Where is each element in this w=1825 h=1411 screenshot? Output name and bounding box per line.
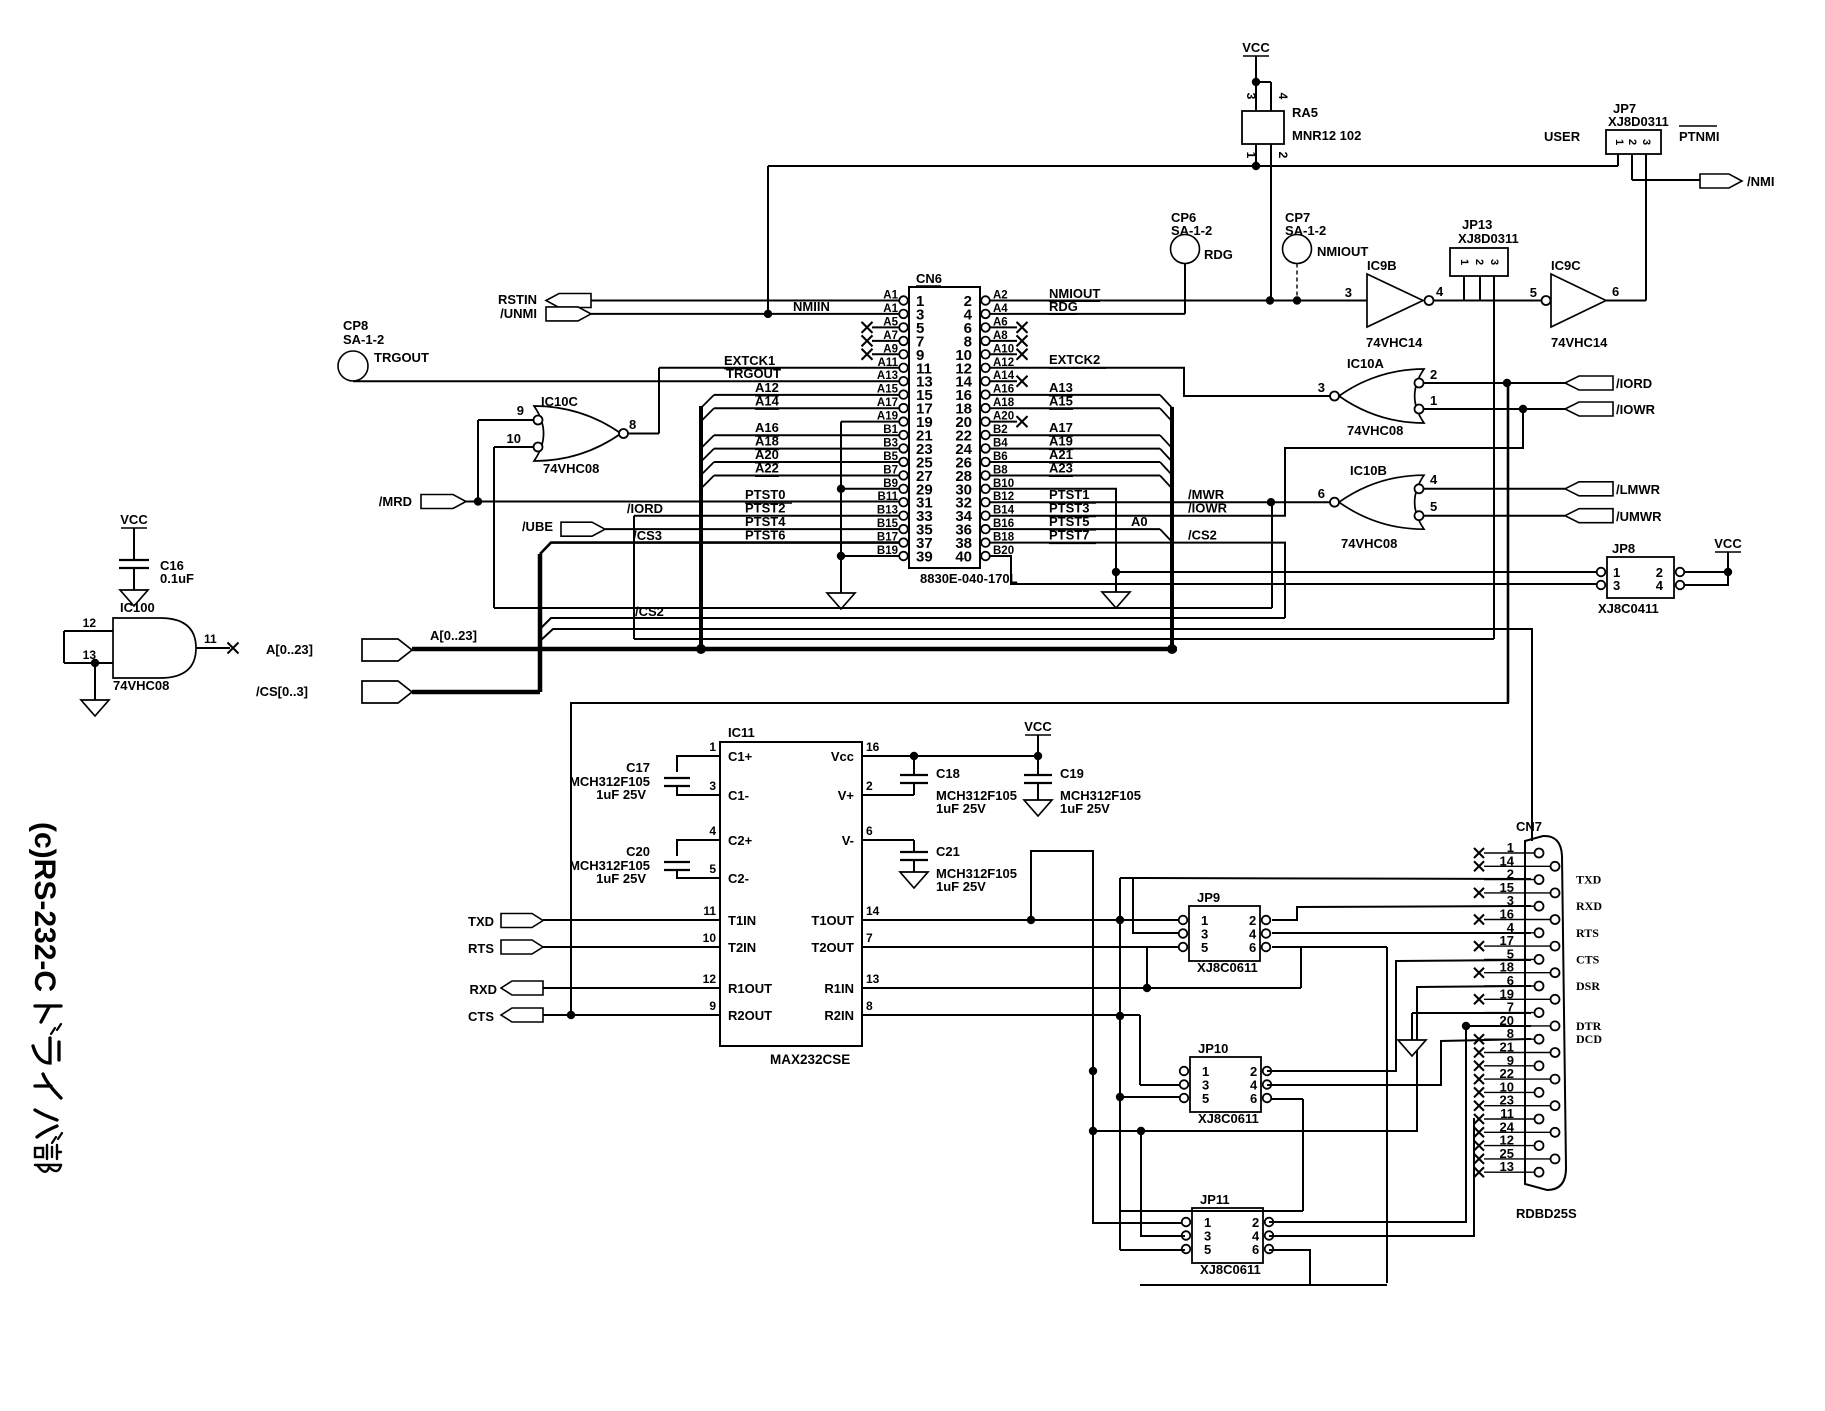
svg-text:1uF 25V: 1uF 25V — [596, 871, 646, 886]
svg-text:3: 3 — [1345, 285, 1352, 300]
svg-text:RDG: RDG — [1049, 299, 1078, 314]
svg-text:PTST7: PTST7 — [1049, 528, 1089, 543]
svg-text:2: 2 — [1430, 367, 1437, 382]
svg-text:/CS2: /CS2 — [1188, 528, 1217, 543]
svg-text:7: 7 — [866, 931, 873, 945]
svg-text:/UMWR: /UMWR — [1616, 509, 1662, 524]
svg-text:1uF 25V: 1uF 25V — [1060, 801, 1110, 816]
svg-text:5: 5 — [1201, 940, 1208, 955]
svg-text:SA-1-2: SA-1-2 — [343, 332, 384, 347]
svg-text:JP10: JP10 — [1198, 1041, 1228, 1056]
svg-text:A22: A22 — [755, 461, 779, 476]
svg-text:NMIOUT: NMIOUT — [1317, 244, 1368, 259]
svg-text:IC10C: IC10C — [541, 394, 578, 409]
svg-text:/NMI: /NMI — [1747, 174, 1774, 189]
svg-text:CN7: CN7 — [1516, 819, 1542, 834]
svg-text:DTR: DTR — [1576, 1019, 1602, 1033]
svg-text:T1OUT: T1OUT — [811, 913, 854, 928]
svg-text:RXD: RXD — [470, 982, 497, 997]
svg-text:2: 2 — [1473, 259, 1485, 265]
svg-text:C2+: C2+ — [728, 833, 753, 848]
svg-text:/IORD: /IORD — [1616, 376, 1652, 391]
svg-text:T1IN: T1IN — [728, 913, 756, 928]
svg-text:C20: C20 — [626, 844, 650, 859]
svg-text:4: 4 — [1276, 93, 1290, 100]
svg-text:XJ8C0611: XJ8C0611 — [1197, 960, 1258, 975]
svg-text:6: 6 — [1318, 486, 1325, 501]
svg-text:A16: A16 — [993, 384, 1014, 396]
svg-text:5: 5 — [1204, 1242, 1211, 1257]
svg-text:5: 5 — [1430, 499, 1437, 514]
svg-text:IC9C: IC9C — [1551, 258, 1581, 273]
svg-text:74VHC08: 74VHC08 — [1347, 423, 1403, 438]
svg-text:IC100: IC100 — [120, 600, 155, 615]
svg-text:10: 10 — [507, 431, 521, 446]
svg-text:CP8: CP8 — [343, 318, 368, 333]
svg-text:74VHC08: 74VHC08 — [1341, 536, 1397, 551]
svg-text:V-: V- — [842, 833, 854, 848]
svg-text:RDBD25S: RDBD25S — [1516, 1206, 1577, 1221]
svg-text:TXD: TXD — [468, 914, 494, 929]
svg-text:11: 11 — [703, 904, 716, 918]
svg-text:A14: A14 — [755, 393, 780, 408]
svg-text:IC10A: IC10A — [1347, 356, 1384, 371]
svg-text:VCC: VCC — [1242, 40, 1270, 55]
svg-text:39: 39 — [916, 549, 933, 566]
svg-text:9: 9 — [517, 403, 524, 418]
svg-text:8: 8 — [629, 417, 636, 432]
svg-text:2: 2 — [866, 779, 873, 793]
svg-text:DSR: DSR — [1576, 979, 1600, 993]
svg-text:A15: A15 — [877, 384, 899, 396]
svg-text:2: 2 — [1626, 139, 1638, 145]
svg-text:T2OUT: T2OUT — [811, 940, 854, 955]
svg-text:IC11: IC11 — [728, 725, 755, 740]
svg-text:T2IN: T2IN — [728, 940, 756, 955]
svg-text:TXD: TXD — [1576, 873, 1602, 887]
svg-text:40: 40 — [955, 549, 972, 566]
svg-text:6: 6 — [1250, 1091, 1257, 1106]
svg-text:SA-1-2: SA-1-2 — [1285, 223, 1326, 238]
svg-text:JP9: JP9 — [1197, 890, 1220, 905]
svg-text:/CS2: /CS2 — [635, 604, 664, 619]
svg-text:/UNMI: /UNMI — [500, 306, 537, 321]
svg-text:/CS[0..3]: /CS[0..3] — [256, 684, 308, 699]
svg-text:6: 6 — [1249, 940, 1256, 955]
svg-text:C18: C18 — [936, 766, 960, 781]
svg-text:4: 4 — [1430, 472, 1438, 487]
svg-text:3: 3 — [1613, 578, 1620, 593]
svg-text:RSTIN: RSTIN — [498, 292, 537, 307]
svg-text:11: 11 — [204, 632, 217, 646]
svg-text:XJ8D0311: XJ8D0311 — [1458, 231, 1519, 246]
svg-text:VCC: VCC — [120, 512, 148, 527]
svg-text:1uF 25V: 1uF 25V — [596, 787, 646, 802]
svg-text:Vcc: Vcc — [831, 749, 854, 764]
svg-text:C2-: C2- — [728, 871, 749, 886]
svg-text:(c)RS-232-C: (c)RS-232-C — [28, 822, 61, 992]
svg-text:RTS: RTS — [468, 941, 494, 956]
svg-text:C17: C17 — [626, 760, 650, 775]
svg-text:5: 5 — [1202, 1091, 1209, 1106]
svg-text:PTST6: PTST6 — [745, 528, 785, 543]
svg-text:DCD: DCD — [1576, 1032, 1602, 1046]
svg-text:R1OUT: R1OUT — [728, 981, 772, 996]
svg-text:/CS3: /CS3 — [633, 528, 662, 543]
svg-text:XJ8C0611: XJ8C0611 — [1198, 1111, 1259, 1126]
svg-text:8830E-040-170L: 8830E-040-170L — [920, 571, 1018, 586]
svg-text:IC9B: IC9B — [1367, 258, 1397, 273]
svg-text:4: 4 — [1656, 578, 1664, 593]
svg-text:3: 3 — [1318, 380, 1325, 395]
svg-text:1: 1 — [1613, 139, 1625, 145]
svg-text:CN6: CN6 — [916, 271, 942, 286]
svg-text:3: 3 — [1488, 259, 1500, 265]
svg-text:4: 4 — [1436, 284, 1444, 299]
svg-text:0.1uF: 0.1uF — [160, 571, 194, 586]
svg-text:C1-: C1- — [728, 788, 749, 803]
svg-text:74VHC14: 74VHC14 — [1366, 335, 1423, 350]
svg-text:JP8: JP8 — [1612, 541, 1635, 556]
svg-text:6: 6 — [866, 824, 873, 838]
svg-text:1: 1 — [709, 740, 716, 754]
svg-text:RA5: RA5 — [1292, 105, 1318, 120]
svg-text:MNR12 102: MNR12 102 — [1292, 128, 1361, 143]
svg-text:1: 1 — [1458, 259, 1470, 265]
svg-text:VCC: VCC — [1024, 719, 1052, 734]
svg-text:VCC: VCC — [1714, 536, 1742, 551]
svg-text:8: 8 — [866, 999, 873, 1013]
svg-text:74VHC08: 74VHC08 — [543, 461, 599, 476]
svg-text:PTNMI: PTNMI — [1679, 129, 1719, 144]
svg-text:JP13: JP13 — [1462, 217, 1492, 232]
svg-text:6: 6 — [1252, 1242, 1259, 1257]
svg-text:12: 12 — [83, 616, 97, 630]
svg-text:TRGOUT: TRGOUT — [374, 350, 429, 365]
svg-text:MAX232CSE: MAX232CSE — [770, 1052, 850, 1067]
svg-text:CTS: CTS — [1576, 952, 1600, 966]
svg-text:5: 5 — [709, 862, 716, 876]
svg-text:2: 2 — [1276, 152, 1290, 159]
svg-text:XJ8D0311: XJ8D0311 — [1608, 114, 1669, 129]
svg-text:5: 5 — [1530, 285, 1537, 300]
svg-text:1: 1 — [1430, 393, 1437, 408]
svg-text:13: 13 — [866, 972, 880, 986]
svg-text:4: 4 — [709, 824, 716, 838]
svg-text:XJ8C0611: XJ8C0611 — [1200, 1262, 1261, 1277]
svg-text:1uF 25V: 1uF 25V — [936, 879, 986, 894]
svg-text:10: 10 — [703, 931, 717, 945]
svg-text:C21: C21 — [936, 844, 960, 859]
svg-text:3: 3 — [1244, 93, 1258, 100]
svg-text:/MRD: /MRD — [379, 494, 412, 509]
svg-text:NMIIN: NMIIN — [793, 299, 830, 314]
svg-text:74VHC08: 74VHC08 — [113, 678, 169, 693]
svg-text:1uF 25V: 1uF 25V — [936, 801, 986, 816]
svg-text:RXD: RXD — [1576, 899, 1602, 913]
svg-text:A0: A0 — [1131, 514, 1148, 529]
svg-text:A[0..23]: A[0..23] — [266, 642, 313, 657]
svg-text:6: 6 — [1612, 284, 1619, 299]
svg-text:XJ8C0411: XJ8C0411 — [1598, 601, 1659, 616]
svg-text:12: 12 — [703, 972, 717, 986]
svg-text:IC10B: IC10B — [1350, 463, 1387, 478]
svg-text:V+: V+ — [838, 788, 855, 803]
svg-text:R2IN: R2IN — [824, 1008, 854, 1023]
svg-text:EXTCK2: EXTCK2 — [1049, 352, 1100, 367]
svg-text:3: 3 — [1640, 139, 1652, 145]
svg-text:RTS: RTS — [1576, 926, 1599, 940]
svg-text:A[0..23]: A[0..23] — [430, 628, 477, 643]
svg-text:C19: C19 — [1060, 766, 1084, 781]
svg-text:CTS: CTS — [468, 1009, 494, 1024]
svg-text:R1IN: R1IN — [824, 981, 854, 996]
svg-text:/IOWR: /IOWR — [1616, 402, 1656, 417]
svg-text:/LMWR: /LMWR — [1616, 482, 1661, 497]
svg-text:14: 14 — [866, 904, 880, 918]
svg-text:3: 3 — [709, 779, 716, 793]
svg-text:R2OUT: R2OUT — [728, 1008, 772, 1023]
svg-text:74VHC14: 74VHC14 — [1551, 335, 1608, 350]
svg-text:/IOWR: /IOWR — [1188, 501, 1228, 516]
svg-text:USER: USER — [1544, 129, 1581, 144]
svg-text:A23: A23 — [1049, 461, 1073, 476]
svg-text:SA-1-2: SA-1-2 — [1171, 223, 1212, 238]
svg-text:9: 9 — [709, 999, 716, 1013]
svg-text:16: 16 — [866, 740, 880, 754]
svg-text:JP11: JP11 — [1200, 1192, 1230, 1207]
svg-text:RDG: RDG — [1204, 247, 1233, 262]
svg-text:/IORD: /IORD — [627, 501, 663, 516]
svg-text:/UBE: /UBE — [522, 519, 553, 534]
svg-text:A15: A15 — [1049, 393, 1073, 408]
svg-text:C1+: C1+ — [728, 749, 753, 764]
